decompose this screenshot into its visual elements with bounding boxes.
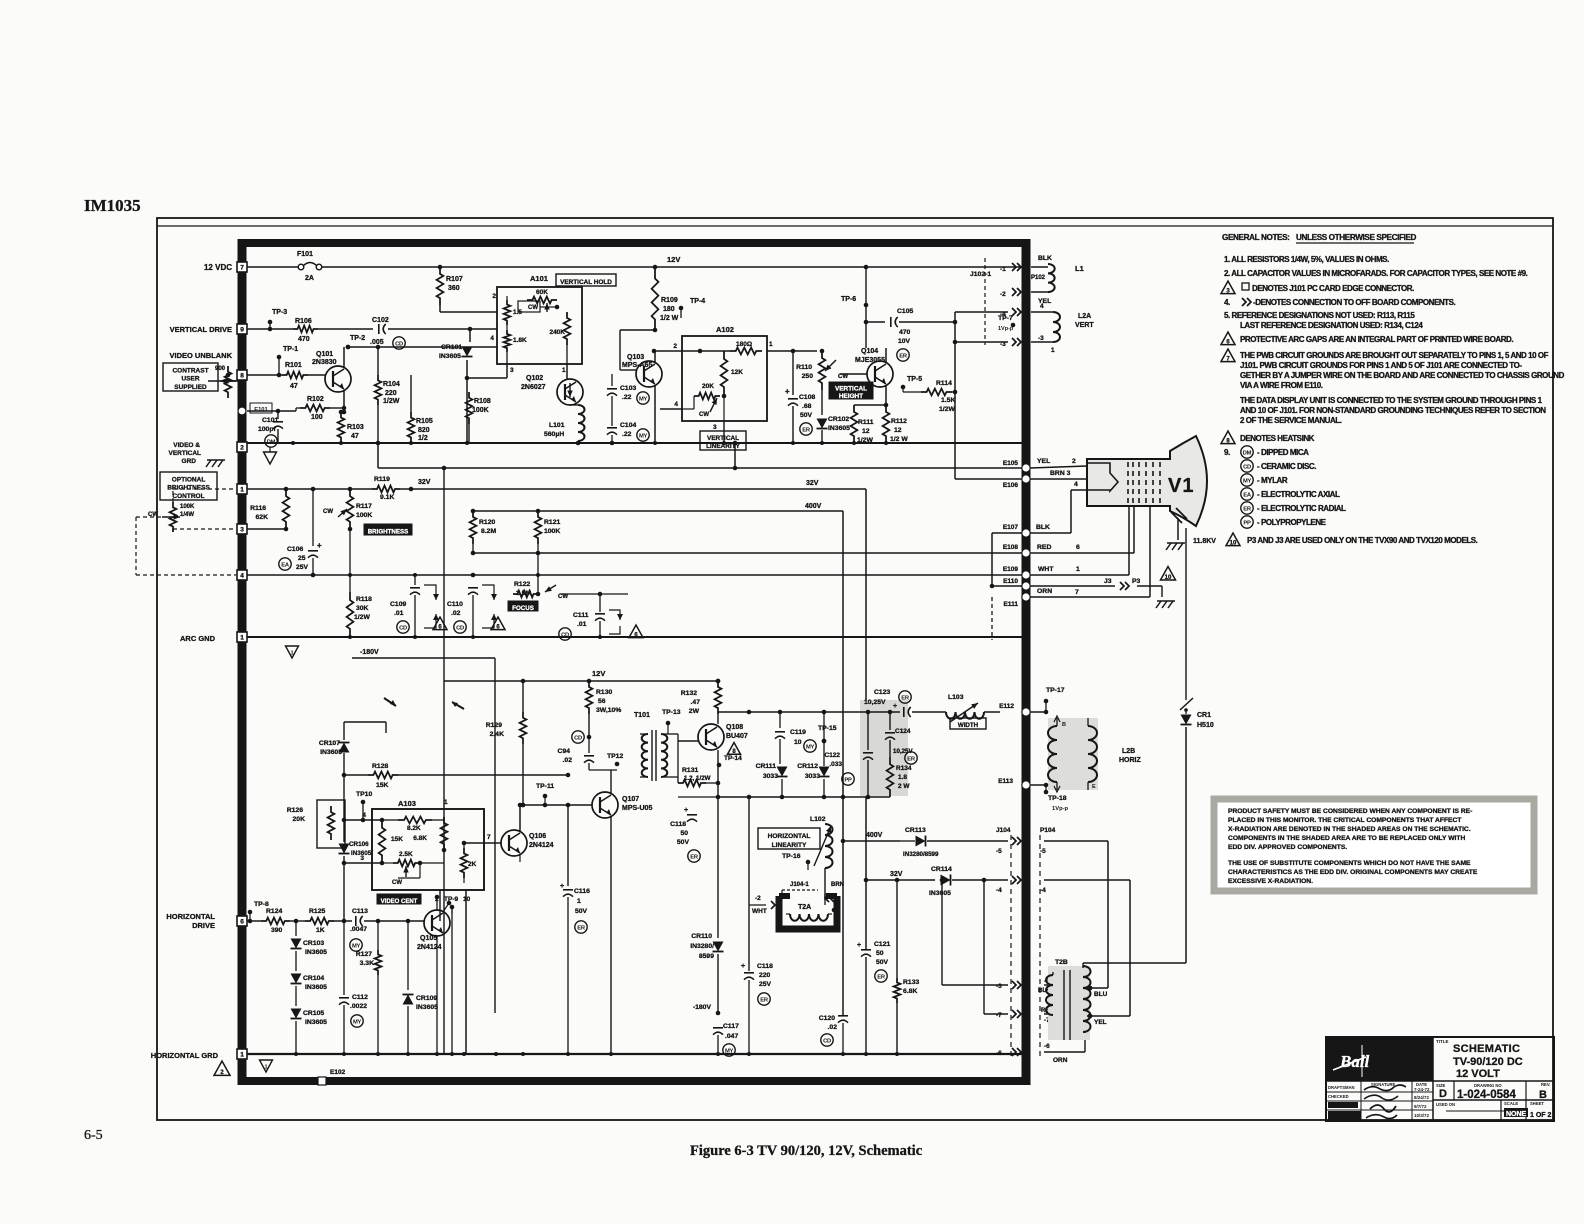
svg-text:FOCUS: FOCUS xyxy=(512,605,534,612)
svg-text:50V: 50V xyxy=(876,959,889,966)
wire 12V lower xyxy=(444,669,720,683)
test point TP10 xyxy=(356,791,372,822)
svg-text:DRIVE: DRIVE xyxy=(192,921,215,930)
svg-text:6-5: 6-5 xyxy=(84,1128,103,1143)
svg-text:1.5: 1.5 xyxy=(513,309,522,316)
wire row -3 xyxy=(1000,335,1055,354)
svg-text:C113: C113 xyxy=(352,908,368,915)
svg-text:1Vp-p: 1Vp-p xyxy=(1052,806,1069,812)
svg-text:TP-8: TP-8 xyxy=(254,901,269,908)
A103 resistor 2K xyxy=(461,843,477,883)
wire row E106 xyxy=(955,392,1022,479)
svg-text:2. ALL CAPACITOR VALUES IN MI: 2. ALL CAPACITOR VALUES IN MICROFARADS. … xyxy=(1224,269,1528,278)
contrast user supplied box xyxy=(163,363,218,391)
wire pin10 down xyxy=(451,905,453,1055)
terminal 7 12VDC xyxy=(237,262,247,272)
svg-text:IN3605: IN3605 xyxy=(351,850,372,857)
svg-text:TP-1: TP-1 xyxy=(283,346,298,353)
svg-text:NONE: NONE xyxy=(1506,1111,1527,1118)
svg-text:R132: R132 xyxy=(681,690,697,697)
resistor R118 30K xyxy=(347,575,372,637)
svg-text:1: 1 xyxy=(562,367,566,374)
pot R117 100K xyxy=(323,489,372,529)
svg-text:R121: R121 xyxy=(544,519,560,526)
svg-text:V1: V1 xyxy=(1168,475,1194,497)
svg-text:CHECKED: CHECKED xyxy=(1328,1094,1349,1099)
svg-text:Q105: Q105 xyxy=(420,935,437,942)
svg-text:C101: C101 xyxy=(262,417,278,424)
svg-text:.047: .047 xyxy=(725,1033,738,1040)
svg-text:E105: E105 xyxy=(1003,460,1019,467)
svg-text:ORN: ORN xyxy=(1037,588,1052,595)
svg-text:1: 1 xyxy=(290,651,293,657)
svg-text:REV.: REV. xyxy=(1541,1082,1550,1087)
junction gnd bus2 xyxy=(609,1052,613,1056)
wire 32V row lower xyxy=(864,866,1021,897)
svg-text:3.3K: 3.3K xyxy=(360,960,374,967)
junction row4 xyxy=(311,573,315,577)
wire junction to CR101 xyxy=(469,329,471,342)
svg-text:TP-5: TP-5 xyxy=(907,376,922,383)
svg-text:TP-9: TP-9 xyxy=(444,896,458,903)
svg-text:1-024-0584: 1-024-0584 xyxy=(1457,1089,1516,1101)
svg-text:HORIZ: HORIZ xyxy=(1119,757,1142,764)
svg-text:-180V: -180V xyxy=(360,649,379,656)
svg-text:.02: .02 xyxy=(563,757,573,764)
svg-text:CR113: CR113 xyxy=(905,827,926,834)
connector J104 labels xyxy=(996,827,1056,1060)
note 6 xyxy=(1221,332,1513,346)
svg-text:ER: ER xyxy=(802,427,811,433)
wire A101 pin1 to Q102 xyxy=(566,364,568,379)
svg-text:12V: 12V xyxy=(667,255,680,264)
title block scale xyxy=(1504,1101,1528,1118)
svg-text:560µH: 560µH xyxy=(544,431,564,438)
svg-text:L101: L101 xyxy=(549,422,565,429)
svg-text:TP-2: TP-2 xyxy=(350,335,365,342)
svg-text:1: 1 xyxy=(769,341,773,348)
svg-text:IN3280/8599: IN3280/8599 xyxy=(903,851,939,858)
svg-text:-6: -6 xyxy=(996,1050,1002,1057)
svg-text:Q103: Q103 xyxy=(627,354,644,361)
diode CR102 xyxy=(817,390,851,443)
capacitor C102 xyxy=(370,317,405,349)
note 9 dm xyxy=(1224,446,1309,458)
offboard arrow pin1 xyxy=(1000,263,1021,273)
svg-text:MY: MY xyxy=(639,433,648,439)
svg-text:T101: T101 xyxy=(634,712,650,719)
svg-text:1: 1 xyxy=(240,487,244,494)
brightness pot 100K xyxy=(148,502,195,532)
crt V1 body xyxy=(1087,436,1207,526)
capacitor C122 .033 PP xyxy=(824,710,873,797)
note 2 xyxy=(1224,269,1528,278)
svg-text:4: 4 xyxy=(490,335,494,342)
wire junction cr chain xyxy=(290,919,305,924)
transistor Q101 xyxy=(312,351,351,392)
terminal 1 arc gnd xyxy=(237,632,247,642)
svg-text:-6: -6 xyxy=(1044,1043,1050,1050)
svg-text:CR104: CR104 xyxy=(303,975,324,982)
A101 pin2 xyxy=(492,293,496,300)
wire -6 row xyxy=(1012,1027,1088,1064)
optional brightness control box xyxy=(160,472,217,500)
svg-text:-DENOTES CONNECTION TO OFF BOA: -DENOTES CONNECTION TO OFF BOARD COMPONE… xyxy=(1253,298,1456,307)
svg-text:- ELECTROLYTIC AXIAL: - ELECTROLYTIC AXIAL xyxy=(1257,490,1340,499)
wire Q106 emitter xyxy=(519,854,521,862)
wire Q103 collector xyxy=(612,349,656,374)
svg-text:THE USE OF SUBSTITUTE COMPONEN: THE USE OF SUBSTITUTE COMPONENTS WHICH D… xyxy=(1228,860,1471,867)
svg-text:MY: MY xyxy=(806,744,815,750)
resistor R120 8.2M xyxy=(470,509,497,544)
svg-text:62K: 62K xyxy=(256,514,269,521)
terminal 1 horizontal gnd xyxy=(237,1049,247,1059)
svg-text:EA: EA xyxy=(1243,492,1252,498)
junction gnd bus2 xyxy=(566,1052,570,1056)
svg-text:USED ON: USED ON xyxy=(1436,1102,1455,1107)
svg-text:7: 7 xyxy=(1075,589,1079,596)
wire -180V xyxy=(350,637,495,1013)
svg-text:R111: R111 xyxy=(858,419,874,426)
A102 pin3 xyxy=(713,395,724,443)
test point TP-5 xyxy=(901,376,923,392)
svg-text:R102: R102 xyxy=(307,396,324,403)
resistor R131 1.2 xyxy=(678,741,718,786)
svg-text:-3: -3 xyxy=(996,983,1002,990)
svg-text:20K: 20K xyxy=(702,383,714,390)
svg-text:12: 12 xyxy=(894,427,902,434)
svg-text:+: + xyxy=(560,883,564,890)
svg-text:HEIGHT: HEIGHT xyxy=(839,393,863,400)
wire A103 pin7 to Q106 xyxy=(462,834,501,845)
svg-text:THE PWB CIRCUIT GROUNDS ARE BR: THE PWB CIRCUIT GROUNDS ARE BROUGHT OUT … xyxy=(1240,351,1549,360)
svg-text:VERT: VERT xyxy=(1075,322,1094,329)
svg-text:CR111: CR111 xyxy=(756,763,777,770)
label VIDEO CENT xyxy=(377,894,421,905)
wire -180V row xyxy=(693,1004,720,1030)
test point TP-4 xyxy=(655,298,705,318)
resistor R112 12 xyxy=(883,405,909,443)
svg-text:2.4K: 2.4K xyxy=(490,731,504,738)
capacitor C112 .0022 xyxy=(339,921,368,1055)
junction on gnd bus xyxy=(291,441,295,445)
svg-text:T2B: T2B xyxy=(1055,959,1068,966)
svg-text:TV-90/120 DC: TV-90/120 DC xyxy=(1453,1056,1523,1068)
svg-text:R134: R134 xyxy=(896,765,912,772)
svg-text:CR1: CR1 xyxy=(1197,712,1211,719)
svg-text:USER: USER xyxy=(181,376,199,383)
svg-text:CR109: CR109 xyxy=(416,995,437,1002)
svg-text:- CERAMIC DISC.: - CERAMIC DISC. xyxy=(1257,462,1316,471)
resistor R128 15K xyxy=(342,763,571,789)
svg-text:-4: -4 xyxy=(1040,887,1046,894)
svg-text:47: 47 xyxy=(351,433,359,440)
wire rows to bar top xyxy=(953,312,1008,394)
A101 pin4 xyxy=(490,335,494,342)
A103 pins bottom xyxy=(435,890,471,921)
wire row4 long xyxy=(247,574,1022,576)
svg-text:25V: 25V xyxy=(296,564,309,571)
svg-text:8.2K: 8.2K xyxy=(407,825,421,832)
svg-text:470: 470 xyxy=(899,329,911,336)
capacitor C101 100pf xyxy=(258,417,283,447)
svg-text:BRN: BRN xyxy=(831,882,844,888)
svg-text:1: 1 xyxy=(1051,347,1055,354)
label VIDEO UNBLANK wire xyxy=(247,374,282,376)
wire Q103 to A102 xyxy=(654,350,682,352)
svg-text:B: B xyxy=(1062,722,1066,728)
title block size xyxy=(1436,1083,1447,1100)
svg-text:TITLE: TITLE xyxy=(1436,1039,1449,1044)
svg-text:ER: ER xyxy=(1243,506,1252,512)
note 3 xyxy=(1221,281,1414,295)
svg-text:C118: C118 xyxy=(670,821,686,828)
svg-text:THE DATA DISPLAY UNIT IS CONNE: THE DATA DISPLAY UNIT IS CONNECTED TO TH… xyxy=(1240,396,1543,405)
wire row E105 xyxy=(376,441,1022,471)
svg-text:10: 10 xyxy=(794,739,802,746)
resistor R133 6.8K xyxy=(894,878,920,1055)
chassis gnd video xyxy=(206,460,225,467)
transistor Q108 BU407 xyxy=(698,724,748,767)
wire WHT -2 to T2A xyxy=(749,797,786,915)
svg-text:WHT: WHT xyxy=(752,908,767,915)
wire Q101 base xyxy=(308,374,325,376)
svg-text:J3: J3 xyxy=(1104,578,1112,585)
crt label V1 xyxy=(1168,475,1194,497)
junction row4 xyxy=(536,573,540,577)
note 1 xyxy=(1224,255,1389,264)
wire rail 797 xyxy=(716,795,890,800)
svg-text:GENERAL NOTES:: GENERAL NOTES: xyxy=(1222,233,1290,242)
svg-text:60K: 60K xyxy=(536,289,548,296)
A103 resistor 6.8K xyxy=(413,817,447,850)
label WIDTH xyxy=(950,718,986,729)
svg-text:4: 4 xyxy=(362,812,366,819)
svg-text:IN3605: IN3605 xyxy=(305,984,327,991)
svg-text:C110: C110 xyxy=(447,601,463,608)
offboard arrow pin2 xyxy=(1000,288,1051,305)
svg-text:4: 4 xyxy=(240,573,244,580)
wire Q101 emitter down xyxy=(342,390,347,414)
svg-text:-4: -4 xyxy=(996,887,1002,894)
svg-text:IN3605: IN3605 xyxy=(828,425,850,432)
svg-text:WHT: WHT xyxy=(1038,566,1054,573)
svg-text:A103: A103 xyxy=(398,799,416,808)
svg-text:1/2W: 1/2W xyxy=(383,398,400,405)
svg-text:TP-3: TP-3 xyxy=(272,309,287,316)
junction gnd bus2 xyxy=(342,1052,346,1056)
note 9 cd xyxy=(1241,460,1316,472)
resistor R111 12 xyxy=(851,405,886,444)
resistor R107 xyxy=(437,265,463,305)
svg-text:15K: 15K xyxy=(391,836,403,843)
svg-text:PLACED IN THIS MONITOR. THE C: PLACED IN THIS MONITOR. THE CRITICAL COM… xyxy=(1228,817,1462,824)
wire Q104 emitter xyxy=(884,385,889,407)
capacitor C103 .22 xyxy=(607,374,649,426)
wire horizontal gnd bus xyxy=(247,1053,1022,1055)
svg-text:+: + xyxy=(684,807,688,814)
note 8 xyxy=(1221,431,1315,445)
svg-text:SCHEMATIC: SCHEMATIC xyxy=(1453,1043,1520,1055)
wire A102 pin4 in xyxy=(660,409,682,443)
test point TP-7 xyxy=(985,315,1015,332)
wire Q105 emitter xyxy=(437,934,443,1055)
test point TP-16 xyxy=(782,853,825,870)
svg-text:P3 AND J3 ARE USED ONLY ON THE: P3 AND J3 ARE USED ONLY ON THE TVX90 AND… xyxy=(1247,536,1478,545)
svg-text:L102: L102 xyxy=(810,816,826,823)
junction on gnd bus xyxy=(339,441,343,445)
svg-text:R103: R103 xyxy=(347,424,364,431)
svg-text:TP-11: TP-11 xyxy=(536,783,554,790)
junction gnd bus2 xyxy=(462,1052,466,1056)
test point TP-17 xyxy=(1044,687,1065,712)
svg-text:R130: R130 xyxy=(596,689,612,696)
title block frame xyxy=(1326,1037,1554,1121)
svg-text:Figure 6-3 TV 90/120, 12V, Sc: Figure 6-3 TV 90/120, 12V, Schematic xyxy=(690,1143,923,1159)
svg-text:MPS-U05: MPS-U05 xyxy=(622,805,652,812)
wire -7 row xyxy=(982,878,1055,1018)
pencil mark 1 xyxy=(384,698,396,706)
svg-text:R124: R124 xyxy=(266,908,282,915)
junction on gnd bus xyxy=(376,441,380,445)
svg-text:1Vp-p: 1Vp-p xyxy=(998,326,1014,332)
svg-text:IN3605: IN3605 xyxy=(929,890,951,897)
A103 pot 2.5K xyxy=(392,851,422,886)
svg-text:C112: C112 xyxy=(352,994,368,1001)
svg-text:-7: -7 xyxy=(996,1012,1002,1019)
svg-text:LINEARITY: LINEARITY xyxy=(772,842,807,849)
svg-text:.0022: .0022 xyxy=(350,1003,367,1010)
svg-text:4: 4 xyxy=(1040,303,1044,310)
svg-text:J102-1: J102-1 xyxy=(970,271,991,278)
resistor R119 9.1K xyxy=(372,476,400,501)
svg-text:TP-17: TP-17 xyxy=(1046,687,1065,694)
resistor R116 62K xyxy=(250,489,289,529)
node E107 xyxy=(990,481,1088,640)
transistor Q107 MPS-U05 xyxy=(592,792,652,818)
svg-text:MY: MY xyxy=(1243,478,1252,484)
svg-text:C104: C104 xyxy=(620,422,636,429)
svg-text:820: 820 xyxy=(418,427,430,434)
wire A102 out right xyxy=(767,349,817,354)
svg-text:30K: 30K xyxy=(356,605,369,612)
svg-text:50: 50 xyxy=(876,950,884,957)
svg-text:Q101: Q101 xyxy=(316,351,333,358)
svg-text:+: + xyxy=(893,703,897,710)
wire Q101 collector up xyxy=(344,345,497,368)
pot R122 2.5M focus xyxy=(513,553,568,600)
svg-text:DENOTES J101 PC CARD EDGE CONN: DENOTES J101 PC CARD EDGE CONNECTOR. xyxy=(1252,284,1414,293)
A101 resistor 1.5 xyxy=(504,300,523,325)
svg-text:9.: 9. xyxy=(1224,448,1230,457)
coil L103 width xyxy=(946,694,1014,722)
A103 resistor 15K xyxy=(379,820,404,863)
svg-text:1/2W: 1/2W xyxy=(939,406,955,413)
junction on gnd bus xyxy=(653,441,657,445)
svg-text:CHARACTERISTICS AS THE EDD DIV: CHARACTERISTICS AS THE EDD DIV. ORIGINAL… xyxy=(1228,869,1478,876)
svg-text:E110: E110 xyxy=(1003,578,1018,585)
junction gnd bus2 xyxy=(406,1052,410,1056)
svg-text:1. ALL RESISTORS 1/4W, 5%, VA: 1. ALL RESISTORS 1/4W, 5%, VALUES IN OHM… xyxy=(1224,255,1389,264)
svg-text:EA: EA xyxy=(281,562,290,568)
svg-text:ER: ER xyxy=(877,974,886,980)
svg-text:250: 250 xyxy=(802,373,814,380)
svg-text:4: 4 xyxy=(1074,481,1078,488)
svg-text:P3: P3 xyxy=(1132,578,1141,585)
diode CR110 xyxy=(690,797,723,1013)
wire Q108 base xyxy=(678,740,698,742)
svg-text:PP: PP xyxy=(1243,520,1251,526)
svg-text:R104: R104 xyxy=(383,381,400,388)
label VERTICAL HEIGHT xyxy=(829,382,873,400)
page number 6-5 xyxy=(84,1128,103,1143)
resistor R106 470 xyxy=(293,318,318,343)
svg-text:Q106: Q106 xyxy=(529,833,546,840)
svg-text:- POLYPROPYLENE: - POLYPROPYLENE xyxy=(1257,518,1327,527)
resistor R102 100 xyxy=(276,396,347,421)
junction on gnd bus xyxy=(852,441,856,445)
wire width row xyxy=(813,711,900,713)
svg-text:1/2 W: 1/2 W xyxy=(660,315,679,322)
wire crt hv lead xyxy=(1185,528,1187,700)
svg-text:220: 220 xyxy=(385,390,397,397)
svg-text:R131: R131 xyxy=(682,767,698,774)
svg-text:.02: .02 xyxy=(451,610,461,617)
svg-text:R133: R133 xyxy=(903,979,919,986)
svg-text:32V: 32V xyxy=(806,480,819,487)
wire R117 wiper xyxy=(348,527,353,575)
note 4 xyxy=(1224,298,1456,307)
svg-text:470: 470 xyxy=(298,336,310,343)
svg-text:1: 1 xyxy=(577,898,581,905)
svg-text:R117: R117 xyxy=(356,503,372,510)
svg-text:B: B xyxy=(1539,1089,1547,1101)
svg-text:3: 3 xyxy=(713,424,717,431)
svg-text:C111: C111 xyxy=(573,612,589,619)
title block drawing no xyxy=(1457,1083,1516,1101)
A102 resistor 12K xyxy=(721,351,744,395)
wire feeder 444 xyxy=(442,466,447,1055)
svg-text:X-RADIATION ARE DENOTED IN THE: X-RADIATION ARE DENOTED IN THE SHADED AR… xyxy=(1228,826,1471,833)
wire A101 pin3 down xyxy=(467,352,507,378)
svg-text:HORIZONTAL: HORIZONTAL xyxy=(768,833,811,840)
svg-text:TP-18: TP-18 xyxy=(1048,795,1067,802)
terminal 9 vertical drive xyxy=(237,324,247,334)
svg-text:IN3605: IN3605 xyxy=(305,1019,327,1026)
A101 box xyxy=(497,274,582,364)
svg-text:100K: 100K xyxy=(356,512,372,519)
title block title xyxy=(1436,1039,1523,1080)
wire P104 -4 right xyxy=(1044,880,1130,1016)
svg-text:900: 900 xyxy=(215,366,226,372)
wire T2B top to CR1 xyxy=(1083,963,1186,968)
wire to C113 xyxy=(334,919,352,924)
svg-text:C103: C103 xyxy=(620,385,636,392)
svg-text:J104-1: J104-1 xyxy=(790,882,809,888)
svg-text:6: 6 xyxy=(240,919,244,926)
svg-text:VERTICAL: VERTICAL xyxy=(835,386,867,393)
svg-text:CR114: CR114 xyxy=(931,866,952,873)
diode CR106 xyxy=(339,820,372,921)
test point TP-13 xyxy=(662,709,681,734)
junction gnd bus2 xyxy=(450,1052,454,1056)
svg-text:.005: .005 xyxy=(370,339,384,346)
svg-text:C122: C122 xyxy=(824,752,840,759)
svg-text:Q102: Q102 xyxy=(526,375,543,382)
node E113 xyxy=(813,778,1048,789)
node E102 xyxy=(318,1069,346,1085)
svg-text:2: 2 xyxy=(1072,458,1076,465)
